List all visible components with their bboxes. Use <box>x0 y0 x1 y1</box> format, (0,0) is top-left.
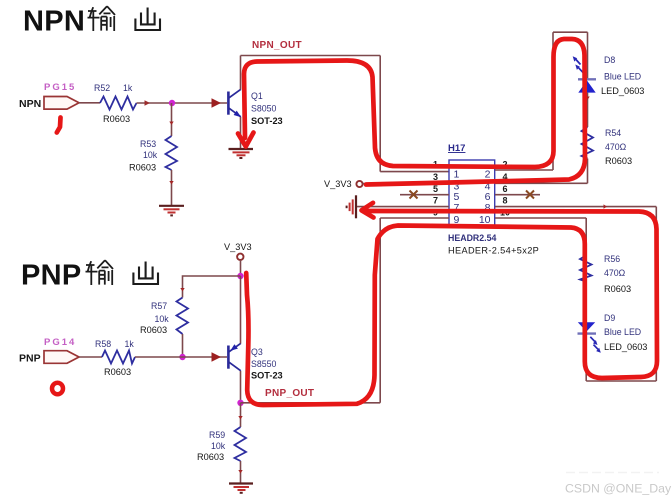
transistor Q3 collector stroke <box>229 362 241 371</box>
wire PG14 to R58 <box>79 356 102 358</box>
resistor R52 <box>100 97 137 110</box>
svg-text:Q1: Q1 <box>251 91 263 101</box>
wire R58 to Q3 base <box>135 356 227 358</box>
ground below R53 <box>159 206 184 216</box>
svg-text:PNP: PNP <box>21 260 82 292</box>
label LED_0603 (D9) <box>604 342 647 352</box>
wire R56 to D9 <box>585 282 587 323</box>
label PNP_OUT net <box>265 388 314 399</box>
wire pin6 stub <box>495 194 540 196</box>
wire pin10 stub right <box>495 217 586 219</box>
label S8050 <box>251 104 277 114</box>
label LED_0603 (D8) <box>601 86 644 96</box>
svg-text:S8050: S8050 <box>251 104 277 114</box>
pin 6 number inside <box>485 191 491 203</box>
svg-text:10k: 10k <box>143 150 158 160</box>
pin 6 number outside <box>503 184 508 194</box>
svg-text:HEADER-2.54+5x2P: HEADER-2.54+5x2P <box>448 246 539 256</box>
svg-text:1: 1 <box>454 169 460 181</box>
resistor R59 <box>235 427 247 461</box>
power port V_3V3 circle (PNP) <box>237 254 243 260</box>
svg-text:R0603: R0603 <box>104 367 131 377</box>
port PG15 pentagon <box>44 97 79 110</box>
pin 1 number inside <box>454 169 460 181</box>
wire tick D8 lower <box>585 97 589 101</box>
label R0603 (R52) <box>103 114 130 124</box>
header H17 title <box>448 143 465 154</box>
node D junction dot (PNP_OUT) <box>237 400 243 406</box>
svg-text:NPN: NPN <box>23 6 85 38</box>
wire NPN_OUT down to pin1 <box>379 56 381 172</box>
svg-text:S8550: S8550 <box>251 359 277 369</box>
wire pin5 stub <box>400 194 449 196</box>
svg-text:1k: 1k <box>125 339 135 349</box>
svg-text:R0603: R0603 <box>605 156 632 166</box>
label PNP port name <box>19 353 41 365</box>
node C junction dot <box>179 354 185 360</box>
svg-text:1k: 1k <box>123 83 133 93</box>
pin 9 number outside <box>433 208 438 218</box>
pin 7 number inside <box>454 202 460 214</box>
red arrowhead at sideways ground <box>362 203 374 218</box>
ground below R59 <box>229 484 253 493</box>
wire tick R53 bottom <box>169 181 173 185</box>
label D9 <box>604 313 615 323</box>
wire NPN_OUT top run <box>241 55 381 57</box>
pin 4 number inside <box>485 181 491 193</box>
label R0603 (R58) <box>104 367 131 377</box>
wire top D8 run <box>553 31 588 33</box>
wire arrow small on base wire <box>145 100 151 106</box>
wire Q1 collector up <box>240 56 242 90</box>
title PNP output <box>21 260 158 292</box>
wire D9 bottom run <box>586 380 656 382</box>
resistor R54 <box>582 127 594 159</box>
LED D9 symbol <box>578 322 601 353</box>
wire pin4 stub right <box>495 182 588 184</box>
svg-text:D8: D8 <box>604 55 615 65</box>
label 10k (R59) <box>211 441 226 451</box>
pin 3 number outside <box>433 172 438 182</box>
wire node A down to R53 <box>171 103 173 136</box>
wire pin2 riser <box>552 32 554 170</box>
svg-text:Blue LED: Blue LED <box>604 327 641 337</box>
label SOT-23 (Q1) <box>251 116 283 126</box>
wire R59 to ground <box>240 461 242 483</box>
svg-text:R57: R57 <box>151 301 167 311</box>
svg-text:10k: 10k <box>155 314 170 324</box>
red small circle below PG14 <box>52 383 63 394</box>
resistor R53 <box>166 136 178 170</box>
label R0603 (R57) <box>140 325 167 335</box>
svg-text:NPN: NPN <box>19 98 41 110</box>
svg-text:R0603: R0603 <box>140 325 167 335</box>
label D8 <box>604 55 615 65</box>
svg-text:H17: H17 <box>448 143 465 154</box>
svg-text:R58: R58 <box>95 339 111 349</box>
label R59 <box>209 430 225 440</box>
label NPN port name <box>19 98 41 110</box>
wire R52 to node A <box>137 102 228 104</box>
label Blue LED (D9) <box>604 327 641 337</box>
port PG14 pentagon <box>44 351 79 364</box>
wire R54 to pin4 <box>587 159 589 184</box>
label S8550 <box>251 359 277 369</box>
watermark CSDN <box>565 482 672 496</box>
svg-text:Q3: Q3 <box>251 347 263 357</box>
label HEADR2.54 <box>448 233 497 243</box>
wire node B left to R57 <box>183 276 241 298</box>
wire R53 to ground <box>171 170 173 205</box>
pin 1 number outside <box>433 159 438 169</box>
pin 3 number inside <box>454 181 460 193</box>
wire D8 to R54 <box>587 93 589 127</box>
svg-text:R59: R59 <box>209 430 225 440</box>
node A junction dot <box>169 100 175 106</box>
label R0603 (R56) <box>604 284 631 294</box>
label R56 <box>604 254 620 264</box>
pin 4 number outside <box>503 172 508 182</box>
wire pin3 to V_3V3 <box>363 182 450 184</box>
label 470ohm (R56) <box>604 268 626 278</box>
svg-text:R0603: R0603 <box>129 163 156 173</box>
wire tick R59 top <box>238 416 242 420</box>
red arrowhead at Q1 ground <box>238 133 254 147</box>
label Q3 <box>251 347 263 357</box>
svg-text:470Ω: 470Ω <box>604 268 626 278</box>
label R0603 (R53) <box>129 163 156 173</box>
transistor Q1 collector stroke <box>229 89 241 98</box>
svg-text:8: 8 <box>503 196 508 206</box>
wire pin9 to left <box>380 217 449 219</box>
svg-text:R56: R56 <box>604 254 620 264</box>
svg-text:SOT-23: SOT-23 <box>251 116 283 126</box>
svg-text:470Ω: 470Ω <box>605 142 627 152</box>
svg-text:SOT-23: SOT-23 <box>251 371 283 381</box>
resistor R56 <box>580 256 592 282</box>
wire pin9 down leg <box>379 218 381 403</box>
pin 5 number outside <box>433 184 438 194</box>
label 1k (R58) <box>125 339 135 349</box>
wire Q3 collector down <box>240 371 242 403</box>
svg-text:R52: R52 <box>94 83 110 93</box>
svg-text:CSDN @ONE_Day|: CSDN @ONE_Day| <box>565 482 672 496</box>
pin 7 number outside <box>433 196 438 206</box>
resistor R58 <box>102 351 135 364</box>
svg-text:PG14: PG14 <box>44 337 76 348</box>
wire V_3V3 down to node B <box>240 260 242 276</box>
pin 8 number inside <box>485 202 491 214</box>
svg-text:D9: D9 <box>604 313 615 323</box>
svg-text:5: 5 <box>433 184 438 194</box>
label Blue LED (D8) <box>604 72 641 82</box>
LED D8 symbol <box>573 56 596 92</box>
svg-text:HEADR2.54: HEADR2.54 <box>448 233 497 243</box>
svg-text:PNP_OUT: PNP_OUT <box>265 388 314 399</box>
title NPN output <box>23 6 160 38</box>
wire D9 up leg <box>585 334 587 381</box>
power port V_3V3 circle (pin3) <box>356 181 362 187</box>
wire PNP_OUT run <box>241 402 381 404</box>
wire tick R53 top <box>169 122 173 126</box>
no-ERC X on pin6 <box>526 191 534 199</box>
ground sideways (pin7) <box>347 195 356 218</box>
svg-text:6: 6 <box>503 184 508 194</box>
label V_3V3 (pin3) <box>324 179 352 189</box>
wire pin10 down to R56 <box>585 218 587 256</box>
label NPN_OUT net <box>252 40 302 51</box>
transistor Q1 emitter stroke with arrow <box>229 108 241 117</box>
wire Q1 emitter down <box>240 117 242 148</box>
label PG14 <box>44 337 76 348</box>
wire tick pin8 <box>604 204 608 208</box>
no-ERC X on pin5 <box>410 191 418 199</box>
wire D8 branch upper <box>587 32 589 79</box>
svg-text:R0603: R0603 <box>197 452 224 462</box>
pin 2 number inside <box>485 169 491 181</box>
transistor Q3 emitter stroke with arrow <box>229 343 241 352</box>
pin 10 number outside <box>500 208 510 218</box>
transistor Q1 base bar <box>227 92 230 115</box>
red annotation stroke PNP+D9 loop <box>246 211 657 405</box>
connector H17 body <box>449 160 495 227</box>
svg-text:Blue LED: Blue LED <box>604 72 641 82</box>
svg-text:R0603: R0603 <box>103 114 130 124</box>
label R52 <box>94 83 110 93</box>
red annotation stroke NPN loop <box>244 39 585 185</box>
wire arrow into Q3 base <box>212 352 222 361</box>
red tick below PG15 <box>57 118 61 133</box>
wire Q3 emitter up <box>240 276 242 344</box>
label R58 <box>95 339 111 349</box>
label 10k (R57) <box>155 314 170 324</box>
svg-text:PNP: PNP <box>19 353 41 365</box>
resistor R57 <box>177 298 189 335</box>
label HEADER-2.54+5x2P <box>448 246 539 256</box>
wire pin8 run right <box>495 206 656 208</box>
label R0603 (R59) <box>197 452 224 462</box>
wire into header pin 1 <box>380 171 449 173</box>
watermark dashes <box>566 472 659 474</box>
pin 10 number inside <box>479 214 491 226</box>
pin 9 number inside <box>454 214 460 226</box>
wire arrow into Q1 base <box>212 98 222 107</box>
wire pin7 to ground <box>357 206 449 208</box>
wire tick R59 bottom <box>238 470 242 474</box>
label PG15 <box>44 82 76 93</box>
svg-text:R53: R53 <box>140 139 156 149</box>
pin 5 number inside <box>454 191 460 203</box>
pin 8 number outside <box>503 196 508 206</box>
node B junction dot <box>237 273 243 279</box>
ground below Q1 <box>229 149 254 158</box>
label R53 <box>140 139 156 149</box>
svg-text:LED_0603: LED_0603 <box>604 342 647 352</box>
label R0603 (R54) <box>605 156 632 166</box>
label R57 <box>151 301 167 311</box>
svg-text:2: 2 <box>485 169 491 181</box>
svg-text:10k: 10k <box>211 441 226 451</box>
pin 2 number outside <box>503 159 508 169</box>
svg-text:LED_0603: LED_0603 <box>601 86 644 96</box>
svg-text:10: 10 <box>479 214 491 226</box>
svg-text:7: 7 <box>433 196 438 206</box>
label 1k (R52) <box>123 83 133 93</box>
svg-text:R54: R54 <box>605 128 621 138</box>
svg-text:PG15: PG15 <box>44 82 76 93</box>
svg-text:NPN_OUT: NPN_OUT <box>252 40 302 51</box>
label 10k (R53) <box>143 150 158 160</box>
wire node D down to R59 <box>240 403 242 427</box>
svg-text:R0603: R0603 <box>604 284 631 294</box>
wire pin8 right leg down <box>655 207 657 381</box>
wire PG15 to R52 <box>79 102 100 104</box>
svg-text:V_3V3: V_3V3 <box>324 179 352 189</box>
label V_3V3 (PNP) <box>224 242 252 252</box>
transistor Q3 base bar <box>227 346 230 369</box>
label 470ohm (R54) <box>605 142 627 152</box>
svg-text:V_3V3: V_3V3 <box>224 242 252 252</box>
wire pin2 stub right <box>495 169 553 171</box>
label SOT-23 (Q3) <box>251 371 283 381</box>
wire R57 down to node C <box>182 334 184 357</box>
label R54 <box>605 128 621 138</box>
wire tick R57 top <box>180 288 184 292</box>
label Q1 <box>251 91 263 101</box>
